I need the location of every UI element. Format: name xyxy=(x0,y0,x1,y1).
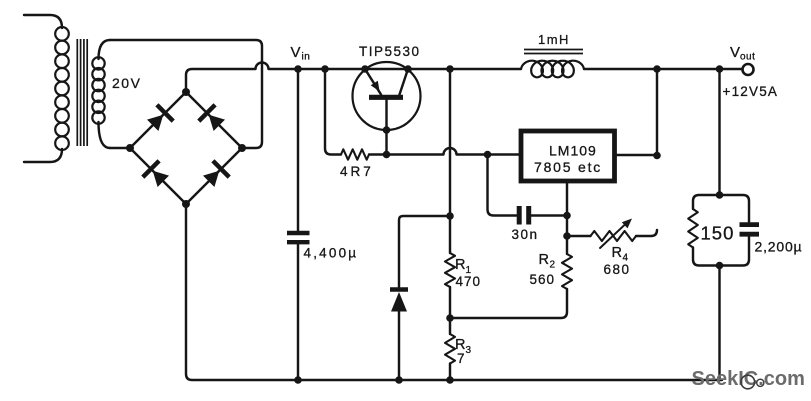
transformer T1 secondary winding xyxy=(92,40,110,148)
wire rail down to D1 node xyxy=(449,69,451,216)
diode D1 anode triangle xyxy=(391,292,407,312)
node bridge left corner xyxy=(126,144,134,152)
svg-text:TIP5530: TIP5530 xyxy=(359,44,421,59)
wire D1 to bottom rail xyxy=(398,311,400,380)
svg-text:LM109: LM109 xyxy=(549,143,597,159)
svg-text:2,200µ: 2,200µ xyxy=(755,239,803,255)
wire R3 to bottom rail xyxy=(449,364,451,381)
svg-text:30n: 30n xyxy=(512,227,539,242)
node adj/30n junction xyxy=(563,212,571,220)
svg-text:4R7: 4R7 xyxy=(340,164,374,179)
svg-text:680: 680 xyxy=(604,262,631,277)
svg-text:470: 470 xyxy=(456,274,482,289)
diode D4 bridge lower-left xyxy=(143,161,169,187)
label R2 xyxy=(539,252,556,271)
wire U1 bottom to adj node xyxy=(566,183,568,216)
wire R2 to bottom horizontal xyxy=(450,289,567,318)
label Vin xyxy=(291,44,311,63)
svg-text:R: R xyxy=(612,245,622,261)
wire C1 bottom to bottom rail xyxy=(297,245,299,381)
node C1 bottom rail junction xyxy=(294,376,302,384)
capacitor C2 30n plates xyxy=(519,206,529,225)
watermark SeekIC.com xyxy=(692,368,805,390)
resistor R2 560 xyxy=(562,254,572,289)
label 1mH xyxy=(538,32,570,47)
capacitor C1 4400u plates xyxy=(287,233,310,242)
diode D5 bridge lower-right xyxy=(203,161,229,187)
wire bottom rail xyxy=(186,204,722,380)
svg-text:SeekIC.com: SeekIC.com xyxy=(692,368,805,390)
svg-text:R: R xyxy=(455,257,465,273)
svg-text:3: 3 xyxy=(466,345,472,356)
label 7805 etc xyxy=(534,159,602,175)
wire secondary bottom to bridge left corner xyxy=(110,147,130,149)
wire Vin rail (bridge top to Vout, hop over secondary wire) xyxy=(186,63,521,92)
label 2,200u xyxy=(755,239,803,255)
label 30n xyxy=(512,227,539,242)
label R1 xyxy=(455,257,472,276)
wire D1 node to R1 xyxy=(449,216,451,253)
node output network rail junction xyxy=(716,65,724,73)
svg-text:V: V xyxy=(291,44,301,61)
transistor Q1 base lead xyxy=(385,100,387,155)
svg-text:7: 7 xyxy=(457,351,465,366)
node Q1 base / R5 junction xyxy=(383,151,391,159)
transistor Q1 base bar xyxy=(369,95,403,100)
resistor R1 470 xyxy=(445,253,455,287)
node R1/R3/R2 junction xyxy=(446,314,454,322)
transformer T1 primary winding xyxy=(24,15,69,162)
node network top junction xyxy=(716,191,724,199)
label 680 xyxy=(604,262,631,277)
capacitor C3 2200u plates xyxy=(740,225,760,235)
node 4R7 rail junction xyxy=(321,65,329,73)
node Q1 emitter rail junction xyxy=(361,65,369,73)
inductor L1 core lines xyxy=(524,50,583,54)
node bridge top corner xyxy=(182,88,190,96)
wire 30n branch down xyxy=(488,155,517,216)
terminal Vout circle xyxy=(743,64,754,75)
svg-text:150: 150 xyxy=(701,223,735,244)
svg-text:20V: 20V xyxy=(112,75,141,91)
wire Vin to C1 top xyxy=(297,69,299,231)
node 30n branch junction xyxy=(484,151,492,159)
label 4,400u xyxy=(304,246,359,261)
wire adj node down to R4 node xyxy=(566,216,568,237)
node network bottom junction xyxy=(716,262,724,270)
wire network bottom to bottom rail xyxy=(718,266,720,381)
node Vin junction xyxy=(294,65,302,73)
node R4 left junction xyxy=(563,232,571,240)
node R1 chain rail junction xyxy=(446,65,454,73)
node Q1 base at circle bottom xyxy=(383,126,391,134)
resistor R5 4R7 xyxy=(341,149,369,159)
svg-text:in: in xyxy=(302,52,311,63)
svg-text:out: out xyxy=(740,52,755,63)
node U1 output junction xyxy=(653,152,661,160)
node bridge bottom corner xyxy=(182,200,190,208)
label Vout xyxy=(730,44,755,63)
wire U1 output to output node xyxy=(617,154,658,156)
transformer T1 core xyxy=(77,39,87,146)
wire secondary top to bridge right corner xyxy=(110,40,262,148)
svg-text:+12V5A: +12V5A xyxy=(723,84,779,99)
wire R3 node to R3 xyxy=(449,318,451,334)
inductor L1 1mH xyxy=(521,61,584,78)
wire output node up to rail xyxy=(656,69,658,156)
wire rail down to network top xyxy=(718,69,720,195)
label LM109 xyxy=(549,143,597,159)
node Q1 collector rail junction xyxy=(404,65,412,73)
svg-text:560: 560 xyxy=(530,272,556,287)
diode D1 cathode bar xyxy=(390,287,408,292)
label 7 xyxy=(457,351,465,366)
label 20V xyxy=(112,75,141,91)
node D1 / R1 junction xyxy=(446,212,454,220)
label 4R7 xyxy=(340,164,374,179)
wire base node to LM109 input with hop xyxy=(387,148,522,155)
diode D2 bridge upper-left xyxy=(147,105,173,131)
wire rail to R5 xyxy=(325,69,341,155)
wire D1 node to diode top xyxy=(399,216,450,287)
label 470 xyxy=(456,274,482,289)
label R3 xyxy=(455,337,472,356)
diode D3 bridge upper-right xyxy=(199,105,225,131)
wire Vin rail right of inductor xyxy=(584,68,743,70)
resistor R4 680 with wiper arrow xyxy=(567,219,657,249)
svg-text:4,400µ: 4,400µ xyxy=(304,246,359,261)
svg-text:2: 2 xyxy=(550,260,556,271)
node D1 bottom rail junction xyxy=(395,376,403,384)
label R4 xyxy=(612,245,629,264)
transistor Q1 emitter lead with arrow xyxy=(365,69,381,95)
wire bridge diamond xyxy=(130,92,242,204)
label 560 xyxy=(530,272,556,287)
node bridge right corner xyxy=(238,144,246,152)
transistor Q1 TIP5530 body circle xyxy=(353,62,421,130)
label TIP5530 xyxy=(359,44,421,59)
node R3 bottom rail junction xyxy=(446,376,454,384)
wire R1 to R3 node xyxy=(449,287,451,318)
resistor R3 7 xyxy=(445,334,455,364)
svg-text:1mH: 1mH xyxy=(538,32,570,47)
regulator U1 LM109 box xyxy=(521,131,615,181)
transistor Q1 collector lead xyxy=(400,69,409,95)
label +12V 5A xyxy=(723,84,779,99)
wire R5 to base node xyxy=(369,153,387,155)
resistor R6 150 xyxy=(688,209,698,248)
svg-text:V: V xyxy=(730,44,740,61)
node output rail junction xyxy=(653,65,661,73)
wire network outline xyxy=(693,195,749,266)
svg-text:7805 etc: 7805 etc xyxy=(534,159,602,175)
wire 30n to adj node xyxy=(531,214,566,216)
label 150 xyxy=(701,223,735,244)
wire R4 node to R2 xyxy=(566,236,568,254)
svg-text:R: R xyxy=(539,252,549,268)
